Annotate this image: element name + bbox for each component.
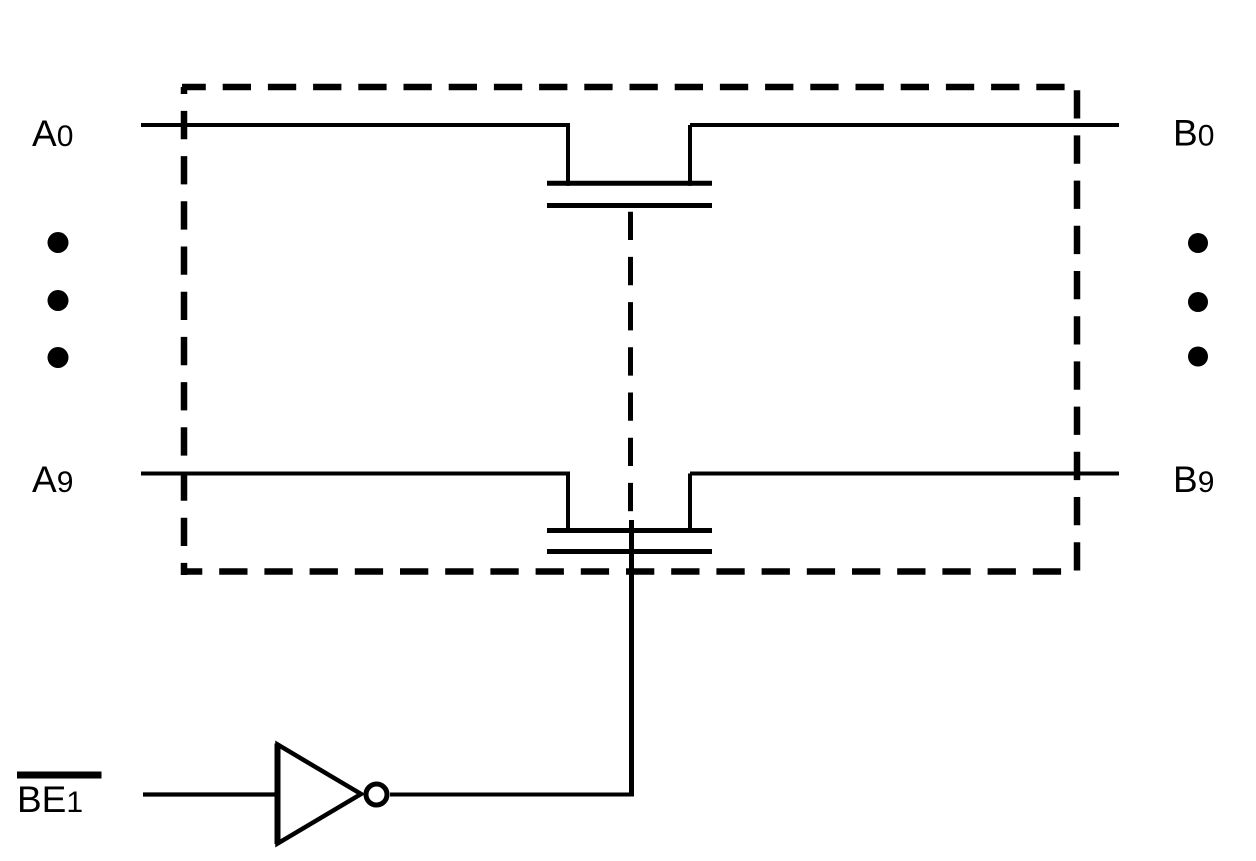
svg-text:B9: B9 bbox=[1173, 459, 1214, 500]
ellipsis dots right (B1..B8) bbox=[1188, 233, 1208, 367]
svg-text:A0: A0 bbox=[32, 113, 73, 154]
wire BE1 input bbox=[143, 792, 279, 796]
pass-gate array dashed box (right border) bbox=[1074, 87, 1081, 573]
transistor Q1 (pass FET between A0 and B0) bbox=[547, 125, 712, 206]
inverter U1 (output bubble) bbox=[366, 784, 387, 805]
inverter U1 (triangle left edge) bbox=[275, 744, 281, 845]
pass-gate array dashed box (bottom border) bbox=[181, 568, 1077, 575]
pass-gate array dashed box (left border) bbox=[181, 87, 188, 575]
label BE1 with overbar (active-low bus enable) bbox=[17, 772, 102, 821]
gate wire (solid segment from Q2 gate down to inverter output) bbox=[629, 520, 634, 797]
transistor Q2 (pass FET between A9 and B9) bbox=[547, 474, 712, 552]
ellipsis dots left (A1..A8) bbox=[48, 232, 69, 368]
wire B0 bbox=[690, 123, 1119, 127]
inverter U1 (triangle) bbox=[278, 745, 362, 844]
gate wire (dashed segment between Q1 and Q2 gates) bbox=[628, 212, 633, 516]
pass-gate array dashed box (top border) bbox=[182, 84, 1080, 91]
wire B9 bbox=[690, 472, 1119, 476]
wire inverter output bbox=[390, 793, 634, 797]
wire A0 bbox=[141, 123, 570, 127]
svg-text:A9: A9 bbox=[32, 459, 73, 500]
svg-text:BE1: BE1 bbox=[17, 779, 83, 820]
svg-text:B0: B0 bbox=[1173, 113, 1214, 154]
wire A9 bbox=[141, 472, 570, 476]
